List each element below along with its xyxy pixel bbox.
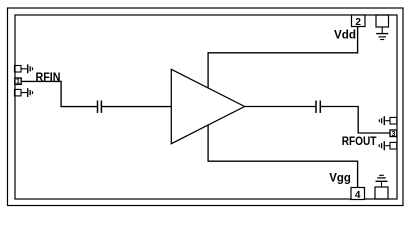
svg-text:4: 4 [355,190,361,201]
svg-text:1: 1 [16,79,20,86]
capacitor C1 input DC block [98,101,102,113]
wire RFIN net [21,81,97,106]
wire RFOUT net [321,107,390,134]
pin 4 Vgg [351,188,365,202]
pad with ground via (right, below RFOUT) [379,141,397,150]
pad with ground via (right, above RFOUT) [379,116,397,125]
pin 3 RFOUT [390,130,397,138]
pad with ground via (top-left) [15,64,33,73]
svg-text:Vgg: Vgg [329,170,351,184]
pad with ground (bottom-right corner) [375,175,388,199]
wire Vdd net [208,27,358,89]
svg-text:2: 2 [355,17,361,28]
pin 2 Vdd [352,15,366,28]
wire Vgg net [208,125,358,188]
wire C1 to amplifier input [102,106,171,108]
pin 1 RFIN [15,78,21,86]
wire amplifier output [245,106,316,108]
pad with ground (top-right corner) [376,15,389,40]
pad with ground via (bottom-left) [15,88,33,97]
capacitor C2 output DC block [316,101,320,113]
svg-text:Vdd: Vdd [334,28,356,42]
op-amp A1 amplifier triangle [171,69,244,143]
svg-text:RFOUT: RFOUT [342,134,377,148]
svg-text:3: 3 [391,131,395,138]
